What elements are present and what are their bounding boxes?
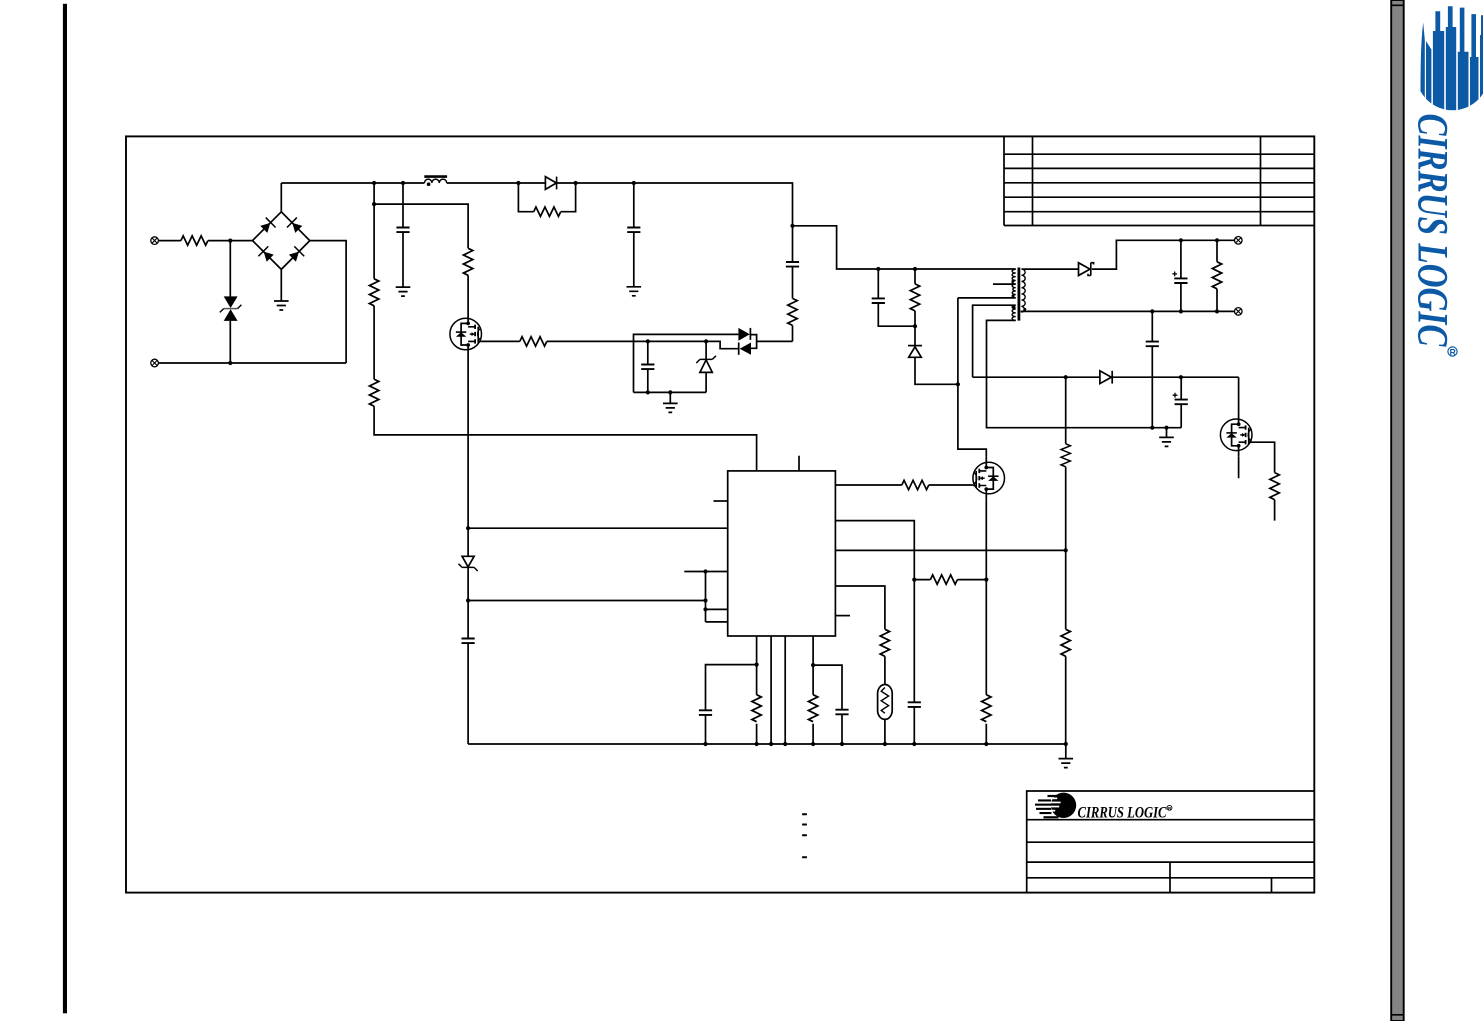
wire: U1 pin to R9 and C8 [835,521,916,744]
capacitor C6 [699,663,759,745]
capacitor C9 [872,269,915,326]
wire: U1 bottom pins [757,636,814,744]
transformer T1 core [1018,268,1021,321]
diode D1 [545,177,556,190]
ground at C2 [627,287,642,296]
capacitor C11 (output electrolytic) [1172,240,1187,311]
revision table [1004,136,1314,225]
wire: rail to Q1 drain [374,204,468,312]
schematic frame border [126,136,1314,892]
resistor R18 [1270,473,1279,500]
transformer polarity dots [1012,280,1027,311]
wire: primary bottom to drain [958,297,1016,299]
ground at clamp box [663,392,678,412]
ground at bus end [1059,744,1074,768]
resistor R16 [1061,629,1070,656]
left margin bar [63,4,67,1014]
bridge rectifier BR1 [253,212,310,270]
transistor Q3 [1220,413,1252,457]
wire: bridge return [310,241,346,363]
wire: aux winding top [973,305,1016,377]
transformer T1 aux winding [1012,305,1016,320]
inductor L1 [424,177,447,186]
capacitor C10 (Y-cap) [1146,311,1159,427]
note dashes [802,814,807,857]
wire: Q3 gate stub [1238,457,1240,479]
resistor R17 (bleeder) [1212,240,1221,311]
op-amp U1 (controller IC) [728,471,836,636]
wire: left pin bus [703,572,727,622]
resistor R2 (parallel with D1) [518,183,575,216]
resistor R4 [369,379,378,406]
Cirrus Logic comet logo (title block) [1035,793,1076,819]
thermistor RT1 [878,685,893,720]
ground bus [468,742,1068,746]
resistor R15 [1061,444,1070,467]
wire: clamp box outline [634,334,739,394]
terminal J1-2 (neutral input) [151,359,159,367]
resistor R5 [463,248,472,275]
capacitor C3 [786,226,799,299]
transformer T1 primary winding [1012,269,1016,298]
wire: U1 gate drive pin [835,484,973,486]
resistor R10 [982,695,991,722]
capacitor C4 [641,341,654,392]
terminal output minus [1235,308,1243,316]
wire: pin stub left [714,500,728,502]
wire: Q2 drain link [956,298,986,456]
wire: gate drive net [547,339,739,348]
diode D2 [738,328,750,341]
wire: U1 feedback pin long [835,548,1067,552]
wire: U1 top stub [798,456,800,471]
wire: U1 right stub [835,615,850,617]
svg-text:R: R [1450,347,1456,357]
CIRRUS LOGIC vertical wordmark [1409,114,1458,358]
capacitor C8 [908,702,921,707]
diode D6 [908,346,958,385]
resistor R7 [902,480,929,489]
Cirrus Logic blue emblem (top right) [1421,6,1483,112]
wire: secondary top [1022,238,1235,269]
terminal J1-1 (line input) [151,237,159,245]
zener Z3 [459,556,478,571]
diode D3 [739,343,751,355]
wire: U1 pin to thermistor leg [835,586,885,744]
wire: top rail left [281,181,424,185]
svg-text:CIRRUS LOGIC: CIRRUS LOGIC [1409,114,1457,348]
wire: aux return rail [987,320,1182,429]
resistor R8 [880,629,889,656]
wire: Q1 source column [466,356,470,744]
ground at C1 [396,287,411,296]
wire: primary tap stub [993,283,1016,285]
capacitor C2 [627,183,640,287]
wire: secondary bottom [1022,309,1235,313]
resistor R11 [752,695,761,722]
svg-text:CIRRUS LOGIC: CIRRUS LOGIC [1078,804,1168,821]
wire: Q2 source column [985,500,987,744]
resistor R6 [520,337,547,346]
wire: diode pair bracket [750,335,792,349]
terminal output plus [1235,237,1243,245]
capacitor C12 (aux electrolytic) [1173,377,1188,428]
wire: Q3 source leg [1252,442,1275,520]
wire: feedback divider chain [1065,377,1067,744]
transistor Q1 [450,312,482,356]
diode D4 (schottky) [1079,263,1094,276]
resistor R9 [914,575,988,584]
wire: long feedback wire [468,598,708,602]
wire: input neutral [158,361,346,365]
ground at aux rail [1159,428,1174,447]
wire: aux supply rail [973,375,1239,413]
resistor R13 [788,298,797,341]
wire: pin ISENSE to U1 [468,527,728,529]
ground below bridge [274,269,289,310]
transistor Q2 [973,456,1005,500]
capacitor C7 [811,663,849,744]
resistor R3 [369,279,378,306]
transformer T1 secondary winding [1022,269,1026,312]
TVS diode Z1 [220,241,242,363]
wire: pin wire 571 [684,569,727,573]
wire: top rail middle [447,181,795,228]
wire: input live [158,239,252,243]
CIRRUS LOGIC wordmark (title block) [1078,804,1173,821]
title block [1027,791,1315,893]
right scrollbar [1391,0,1404,1021]
resistor R12 [808,695,817,722]
resistor R14 [910,269,919,346]
resistor R1 [181,236,208,245]
capacitor C5 [462,639,475,644]
zener Z2 [696,341,716,392]
diode D5 [1100,371,1112,384]
wire: Q1 gate lead [482,340,520,342]
capacitor C1 [396,183,409,287]
wire: bridge plus to top rail [280,183,282,212]
wire: snubber rail [793,226,1016,271]
wire: left divider column [372,183,757,471]
